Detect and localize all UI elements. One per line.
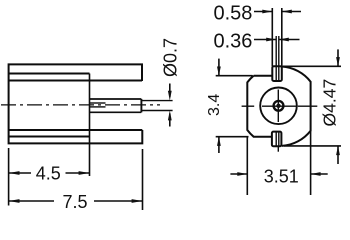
- svg-text:3.51: 3.51: [264, 167, 299, 187]
- svg-text:0.36: 0.36: [214, 31, 253, 53]
- svg-text:3.4: 3.4: [206, 94, 223, 116]
- svg-text:Ø0.7: Ø0.7: [161, 38, 181, 77]
- svg-text:0.58: 0.58: [214, 3, 253, 25]
- svg-text:Ø4.47: Ø4.47: [320, 79, 340, 127]
- svg-text:4.5: 4.5: [36, 164, 61, 184]
- svg-text:7.5: 7.5: [62, 192, 87, 212]
